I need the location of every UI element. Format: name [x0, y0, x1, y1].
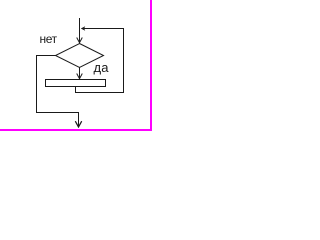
svg-text:нет: нет [40, 32, 58, 46]
svg-text:да: да [94, 60, 110, 75]
